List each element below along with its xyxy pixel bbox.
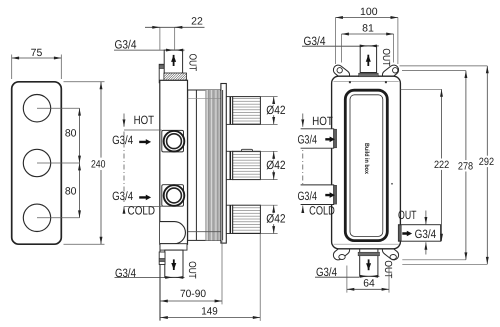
svg-text:G3/4: G3/4 bbox=[112, 189, 133, 203]
stem 2 dim Ø42 bbox=[260, 151, 286, 179]
leader line middle circle bbox=[37, 162, 80, 164]
svg-text:22: 22 bbox=[191, 16, 203, 28]
svg-text:75: 75 bbox=[31, 47, 43, 59]
svg-text:292: 292 bbox=[479, 156, 494, 168]
dim 292 bbox=[400, 66, 495, 264]
box body bbox=[332, 76, 401, 249]
lug bottom-left bbox=[331, 243, 351, 262]
right port small dim arrows bbox=[425, 211, 427, 225]
dim 81 bbox=[342, 23, 394, 63]
svg-text:HOT: HOT bbox=[134, 113, 155, 127]
dim 240 line bbox=[100, 82, 102, 244]
stem 2 bbox=[226, 149, 260, 179]
svg-text:OUT: OUT bbox=[398, 208, 417, 222]
flange bbox=[221, 84, 226, 244]
svg-text:70-90: 70-90 bbox=[180, 288, 206, 300]
svg-text:149: 149 bbox=[201, 305, 218, 317]
dim 70-90 bbox=[160, 241, 222, 305]
lug bottom-right bbox=[380, 243, 400, 262]
svg-text:Build in box: Build in box bbox=[363, 143, 370, 174]
inner opening thick bbox=[345, 90, 387, 240]
centerline with arrows bbox=[302, 114, 304, 120]
svg-text:G3/4: G3/4 bbox=[112, 133, 133, 147]
svg-text:COLD: COLD bbox=[128, 204, 156, 218]
bottom outlet pipe bbox=[165, 250, 183, 277]
svg-text:Ø42: Ø42 bbox=[266, 103, 286, 117]
svg-text:80: 80 bbox=[65, 185, 77, 197]
stem 1 dim Ø42 bbox=[260, 97, 286, 125]
dim 80 upper line bbox=[79, 108, 81, 163]
dim 240 text bbox=[90, 158, 107, 170]
svg-text:OUT: OUT bbox=[382, 260, 393, 279]
screws bbox=[349, 81, 351, 83]
converging arrows bottom pipe bbox=[165, 276, 172, 278]
handle circle middle bbox=[23, 149, 50, 176]
converging arrows top pipe bbox=[361, 45, 368, 47]
up arrow in top pipe bbox=[173, 55, 175, 66]
svg-text:OUT: OUT bbox=[380, 48, 391, 67]
stem 3 dim Ø42 bbox=[260, 205, 286, 233]
front plate bbox=[12, 82, 62, 244]
svg-text:COLD: COLD bbox=[309, 204, 335, 218]
inner recess thin bbox=[350, 95, 383, 237]
valve body bbox=[160, 80, 188, 244]
cold inlet circle bbox=[164, 185, 185, 206]
top pipe bbox=[360, 46, 376, 73]
top thread band bbox=[164, 73, 187, 80]
dim 75 extension lines bbox=[11, 55, 13, 80]
box face edge lines bbox=[334, 80, 399, 82]
dim 80 lower line bbox=[79, 163, 81, 218]
svg-text:Ø42: Ø42 bbox=[266, 212, 286, 226]
svg-text:278: 278 bbox=[458, 161, 473, 173]
up arrow in top pipe bbox=[367, 55, 369, 66]
bottom step bbox=[160, 244, 187, 250]
dim 278 bbox=[402, 71, 474, 260]
cold port left bbox=[301, 185, 334, 205]
handle circle bottom bbox=[23, 204, 50, 231]
dim 222 bbox=[401, 89, 450, 241]
bottom pipe bbox=[360, 249, 378, 276]
cold inlet boss bbox=[162, 185, 184, 207]
dim 149 bbox=[160, 234, 260, 321]
hot inlet boss bbox=[162, 130, 184, 152]
stem 1 bbox=[226, 97, 260, 125]
right port OUT bbox=[398, 225, 440, 242]
cartridge housing hatched bbox=[188, 90, 221, 240]
leader line top circle bbox=[37, 107, 80, 109]
down arrow in bottom pipe bbox=[173, 259, 175, 270]
svg-text:G3/4: G3/4 bbox=[115, 38, 137, 52]
svg-text:HOT: HOT bbox=[312, 114, 333, 128]
svg-text:80: 80 bbox=[65, 127, 77, 139]
svg-text:OUT: OUT bbox=[186, 261, 197, 279]
stem 3 bbox=[226, 205, 260, 233]
top wall fitting G3/4 bbox=[159, 64, 165, 83]
lug top-left bbox=[331, 63, 351, 82]
top outlet pipe bbox=[164, 50, 182, 73]
converging arrows top pipe bbox=[165, 49, 174, 51]
svg-text:64: 64 bbox=[363, 277, 375, 289]
svg-text:240: 240 bbox=[91, 159, 106, 171]
svg-text:G3/4: G3/4 bbox=[297, 132, 317, 146]
dim 64 bbox=[347, 266, 389, 293]
dim 22 bbox=[145, 16, 205, 50]
svg-text:G3/4: G3/4 bbox=[297, 189, 317, 203]
svg-text:100: 100 bbox=[360, 6, 378, 18]
dim 240 extension lines bbox=[64, 81, 105, 83]
boss edge leader lines bbox=[124, 129, 162, 131]
leader line bottom circle bbox=[37, 217, 80, 219]
down arrow bottom pipe bbox=[368, 259, 370, 270]
svg-text:Ø42: Ø42 bbox=[266, 158, 286, 172]
bottom wall fitting G3/4 bbox=[159, 252, 165, 265]
lug top-right bbox=[380, 63, 400, 82]
svg-text:OUT: OUT bbox=[187, 54, 198, 72]
centerline with arrows bbox=[123, 114, 125, 120]
wall plate line bbox=[159, 64, 161, 321]
handle circle top bbox=[23, 95, 50, 122]
dim 75 line bbox=[12, 57, 62, 59]
hot port left bbox=[301, 129, 334, 148]
hot inlet circle bbox=[164, 131, 185, 152]
svg-text:G3/4: G3/4 bbox=[415, 227, 437, 241]
svg-text:222: 222 bbox=[434, 159, 449, 171]
bottom boss capsule bbox=[160, 222, 185, 244]
dim 100 bbox=[336, 6, 398, 64]
converging arrows bottom pipe bbox=[360, 275, 367, 277]
svg-text:81: 81 bbox=[362, 23, 374, 35]
